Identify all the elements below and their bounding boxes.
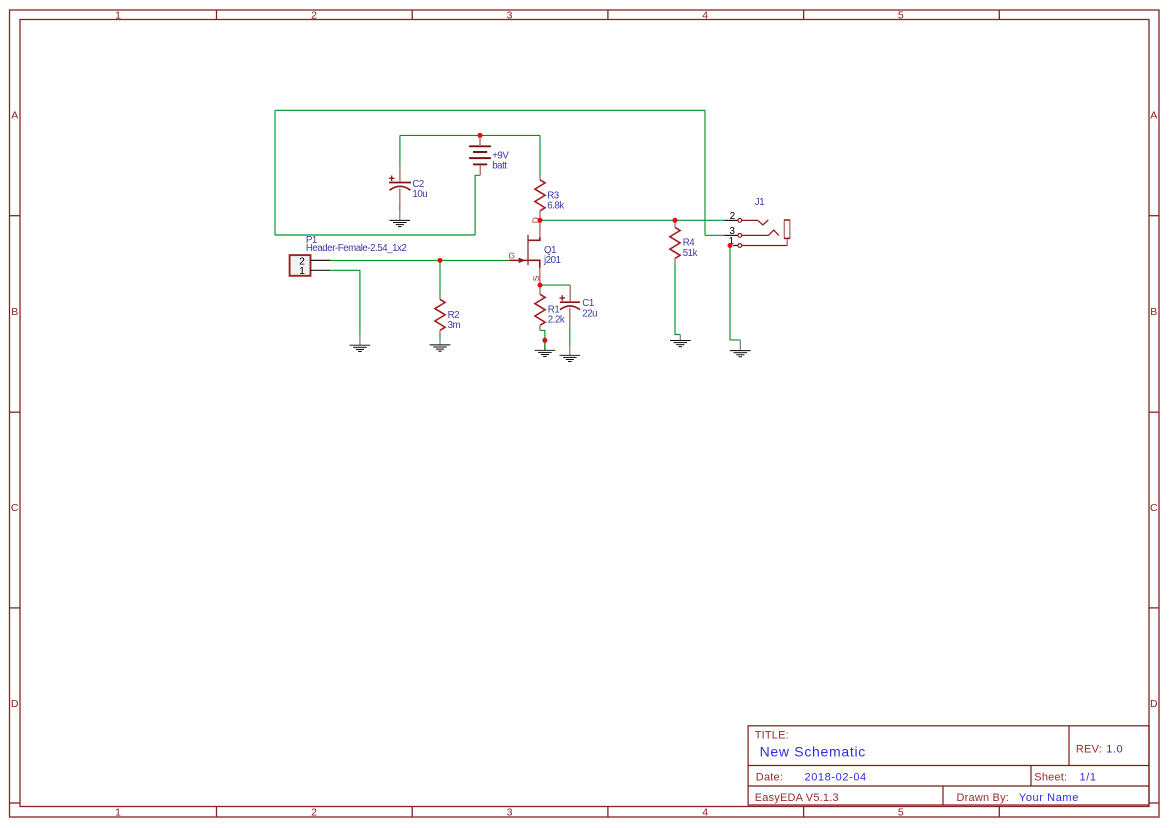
title block value 2018-02-04: [805, 771, 867, 783]
frame row ticks right: [1149, 216, 1159, 803]
ground for C1: [560, 345, 581, 361]
C2 value 10u: [412, 189, 427, 200]
Q1 label Q1: [544, 245, 556, 256]
svg-text:S: S: [531, 275, 541, 281]
svg-text:R4: R4: [683, 237, 696, 248]
P1 label P1: [306, 235, 317, 246]
resistor R4: [670, 223, 680, 263]
svg-text:A: A: [1150, 110, 1157, 122]
P1 pin number 2: [299, 256, 305, 267]
svg-text:Your Name: Your Name: [1019, 792, 1079, 804]
capacitor C2: [389, 166, 411, 206]
J1 pin number 1: [729, 236, 735, 247]
svg-text:J1: J1: [755, 197, 764, 208]
junction dot source node: [538, 283, 543, 288]
svg-text:Date:: Date:: [756, 771, 783, 783]
svg-text:New Schematic: New Schematic: [760, 743, 866, 759]
Q1 pin name S: [531, 275, 541, 281]
wire outer loop right: [704, 110, 706, 235]
frame row ticks left: [10, 216, 21, 803]
wire outer loop top: [275, 109, 705, 111]
wire P1 pin1 to ground: [330, 270, 360, 335]
wire R1 bottom jog to ground: [540, 330, 545, 350]
wire R4 bottom to ground: [675, 263, 680, 335]
svg-text:4: 4: [702, 10, 708, 22]
capacitor C1: [559, 285, 580, 325]
wire C2 bottom: [399, 205, 401, 210]
svg-text:TITLE:: TITLE:: [755, 730, 789, 742]
svg-text:G: G: [509, 250, 516, 260]
J1 pin number 3: [729, 226, 735, 237]
resistor R2: [435, 296, 445, 335]
battery label batt: [492, 161, 507, 172]
junction dot R1 ground: [542, 338, 547, 343]
svg-text:C: C: [1150, 502, 1158, 514]
ground for P1 pin1: [350, 335, 371, 352]
ground for J1 pin1: [730, 340, 751, 357]
svg-text:2: 2: [311, 806, 317, 818]
junction dot gate node: [438, 258, 443, 263]
svg-text:C: C: [11, 502, 19, 514]
resistor R3: [535, 176, 545, 220]
svg-text:3: 3: [507, 806, 513, 818]
wire C1 bottom: [569, 325, 571, 345]
title block label Sheet:: [1034, 771, 1067, 783]
svg-text:6.8k: 6.8k: [547, 201, 564, 212]
frame column ticks bottom: [217, 807, 1000, 818]
Q1 pin name D: [531, 217, 541, 223]
title block value 1.0: [1106, 744, 1123, 756]
svg-text:1: 1: [115, 806, 121, 818]
svg-text:1/1: 1/1: [1080, 771, 1097, 783]
transistor Q1 j201 JFET: [509, 220, 540, 285]
frame column labels top: [115, 10, 904, 22]
svg-text:B: B: [1150, 306, 1157, 318]
C2 label C2: [412, 179, 424, 190]
title block label EasyEDA V5.1.3: [755, 792, 839, 804]
svg-text:2: 2: [311, 10, 317, 22]
wire outer loop left: [274, 110, 276, 235]
R4 value 51k: [683, 248, 698, 259]
title block value 1/1: [1080, 771, 1097, 783]
svg-text:4: 4: [702, 806, 708, 818]
svg-text:D: D: [1150, 698, 1158, 710]
junction dot drain node: [538, 218, 543, 223]
resistor R1: [535, 290, 545, 330]
junction dot R4 top: [673, 218, 678, 223]
wire top bus: [400, 134, 540, 136]
connector J1 audio jack: [725, 219, 791, 248]
wire J1 pin1 to ground: [730, 246, 740, 340]
svg-text:D: D: [11, 698, 19, 710]
wire to J1 pin3: [705, 234, 726, 236]
wire battery minus riser: [475, 175, 480, 235]
svg-text:22u: 22u: [582, 309, 597, 320]
Q1 value j201: [543, 255, 561, 266]
title block label Drawn By:: [957, 792, 1010, 804]
svg-text:Drawn By:: Drawn By:: [957, 792, 1010, 804]
svg-text:2: 2: [730, 211, 736, 222]
ground for C2: [390, 210, 411, 227]
svg-text:Sheet:: Sheet:: [1034, 771, 1067, 783]
svg-text:EasyEDA V5.1.3: EasyEDA V5.1.3: [755, 792, 839, 804]
svg-text:3m: 3m: [448, 320, 461, 331]
title block value Your Name: [1019, 792, 1079, 804]
svg-text:B: B: [11, 306, 18, 318]
ground for R4: [670, 335, 691, 347]
wire R3 riser: [539, 135, 541, 176]
wire drain bus to J1 pin2: [540, 219, 726, 221]
title block label TITLE:: [755, 730, 789, 742]
svg-text:batt: batt: [492, 161, 507, 172]
wire outer loop bottom: [275, 234, 475, 236]
ground for R1: [535, 340, 556, 356]
wire gate net: [330, 259, 509, 261]
R3 label R3: [547, 191, 559, 202]
C1 label C1: [582, 298, 594, 309]
R1 value 2.2k: [548, 315, 565, 326]
battery label +9V: [492, 150, 509, 161]
R4 label R4: [683, 237, 696, 248]
title block outline: [748, 726, 1149, 805]
Q1 pin name G: [509, 250, 516, 260]
wire source node to C1: [540, 284, 570, 286]
junction dot battery top: [478, 133, 483, 138]
frame column ticks top: [217, 10, 1000, 20]
svg-text:C1: C1: [582, 298, 594, 309]
svg-text:1: 1: [115, 10, 121, 22]
frame row labels left: [11, 110, 19, 711]
svg-text:Header-Female-2.54_1x2: Header-Female-2.54_1x2: [306, 243, 407, 254]
wire R2 top: [439, 260, 441, 295]
svg-text:5: 5: [898, 10, 904, 22]
svg-text:10u: 10u: [412, 189, 427, 200]
wire C2 riser: [399, 135, 401, 166]
J1 label J1: [755, 197, 764, 208]
svg-text:A: A: [11, 110, 18, 122]
svg-text:2.2k: 2.2k: [548, 315, 565, 326]
frame row labels right: [1150, 110, 1158, 711]
svg-text:1: 1: [299, 266, 305, 277]
battery BT +9V: [469, 138, 491, 176]
wire R2 bottom: [439, 334, 441, 338]
R3 value 6.8k: [547, 201, 564, 212]
R1 label R1: [548, 304, 560, 315]
P1 value Header-Female-2.54_1x2: [306, 243, 407, 254]
header P1: [290, 255, 330, 276]
R2 label R2: [448, 310, 460, 321]
C1 value 22u: [582, 309, 597, 320]
frame column labels bottom: [115, 806, 904, 818]
svg-text:5: 5: [898, 806, 904, 818]
svg-text:51k: 51k: [683, 248, 698, 259]
title block label REV:: [1076, 744, 1102, 756]
wire source node down: [539, 285, 541, 290]
J1 pin number 2: [730, 211, 736, 222]
R2 value 3m: [448, 320, 461, 331]
svg-text:j201: j201: [543, 255, 561, 266]
svg-text:REV:: REV:: [1076, 744, 1102, 756]
svg-text:1.0: 1.0: [1106, 744, 1123, 756]
P1 pin number 1: [299, 266, 305, 277]
ground for R2: [430, 339, 451, 351]
svg-text:2018-02-04: 2018-02-04: [805, 771, 867, 783]
title block label Date:: [756, 771, 783, 783]
junction dot J1 pin1: [728, 243, 733, 248]
title block value New Schematic: [760, 743, 866, 759]
svg-text:3: 3: [507, 10, 513, 22]
